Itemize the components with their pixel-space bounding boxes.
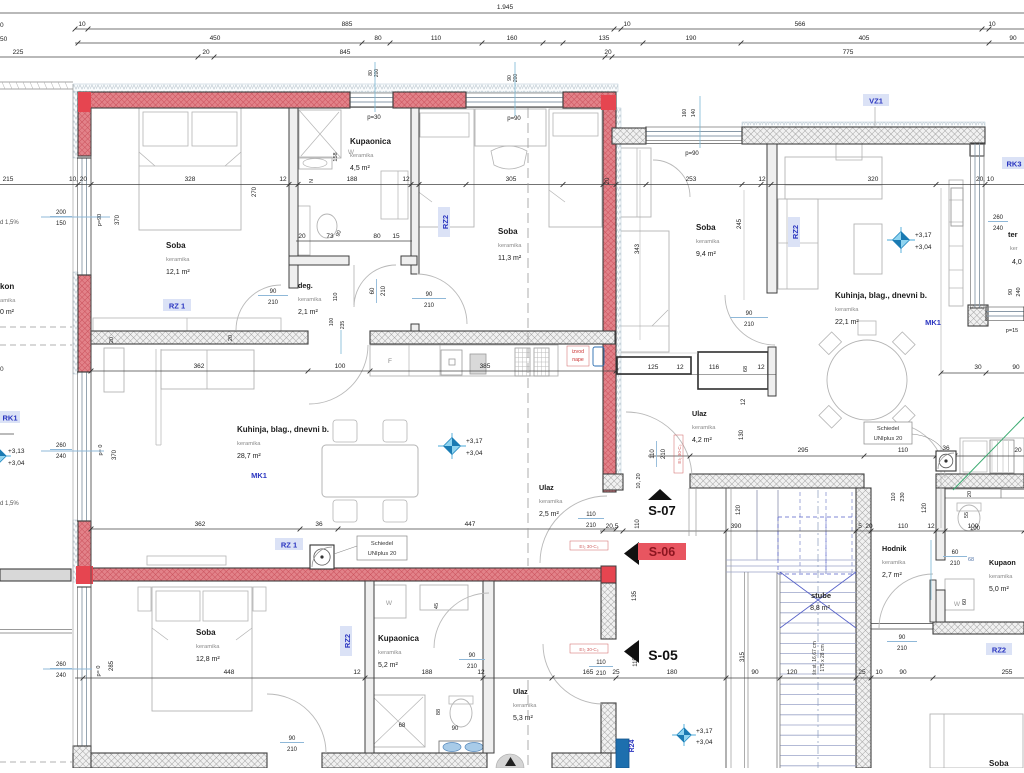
- svg-text:N: N: [309, 179, 315, 183]
- svg-text:210: 210: [467, 664, 478, 670]
- svg-text:245: 245: [737, 218, 743, 229]
- svg-text:68: 68: [399, 723, 406, 729]
- chimney symbol: [310, 545, 334, 569]
- svg-text:405: 405: [859, 35, 870, 42]
- svg-text:125: 125: [648, 364, 659, 371]
- svg-text:keramika: keramika: [989, 574, 1013, 580]
- red west wall pier lower: [78, 521, 91, 568]
- svg-text:188: 188: [422, 669, 433, 676]
- svg-text:keramika: keramika: [350, 153, 374, 159]
- wardrobe niche wall 1: [617, 357, 691, 374]
- svg-text:200: 200: [513, 74, 519, 83]
- doors: [236, 160, 945, 753]
- svg-text:F: F: [388, 358, 392, 365]
- svg-text:20: 20: [865, 523, 873, 530]
- svg-text:90: 90: [1012, 364, 1020, 371]
- svg-text:188: 188: [347, 176, 358, 183]
- svg-text:90: 90: [746, 311, 753, 317]
- svg-text:Soba: Soba: [696, 223, 716, 232]
- svg-text:10: 10: [623, 21, 631, 28]
- svg-text:320: 320: [868, 176, 879, 183]
- insulation strip top exterior wall: [73, 84, 618, 92]
- svg-text:100: 100: [329, 318, 335, 327]
- svg-text:447: 447: [465, 521, 476, 528]
- svg-text:izvod: izvod: [572, 349, 584, 355]
- svg-text:deg.: deg.: [298, 281, 313, 290]
- svg-text:20, 10: 20, 10: [976, 176, 994, 183]
- svg-text:12: 12: [402, 176, 410, 183]
- svg-text:+3,17: +3,17: [466, 438, 483, 445]
- svg-text:šir.st. 16,67 cm: šir.st. 16,67 cm: [812, 641, 818, 675]
- svg-text:190: 190: [686, 35, 697, 42]
- level marker compass: [438, 445, 466, 447]
- label RZ 1: [163, 299, 191, 311]
- level marker compass: [887, 239, 915, 241]
- svg-text:d 1,5%: d 1,5%: [0, 501, 19, 507]
- svg-text:260: 260: [56, 662, 67, 668]
- svg-text:160: 160: [682, 109, 688, 118]
- svg-text:10: 10: [78, 21, 86, 28]
- svg-text:5,3 m²: 5,3 m²: [513, 715, 534, 722]
- shaft niche wall 2: [698, 352, 768, 389]
- svg-text:keramika: keramika: [498, 243, 522, 249]
- svg-text:RK3: RK3: [1006, 160, 1021, 169]
- red exterior wall top segment 3: [563, 92, 616, 108]
- svg-text:Schiedel: Schiedel: [877, 426, 899, 432]
- svg-text:keramika: keramika: [378, 650, 402, 656]
- svg-text:p=30: p=30: [367, 115, 381, 121]
- svg-text:235: 235: [340, 321, 346, 330]
- svg-text:Ulaz: Ulaz: [692, 409, 707, 418]
- svg-text:210: 210: [268, 300, 279, 306]
- svg-text:68: 68: [743, 366, 749, 372]
- svg-text:20: 20: [967, 491, 973, 497]
- svg-text:110: 110: [898, 523, 909, 530]
- svg-text:keramika: keramika: [513, 703, 537, 709]
- svg-text:+3,04: +3,04: [466, 450, 483, 457]
- svg-text:+3,17: +3,17: [696, 728, 713, 735]
- svg-text:4,5 m²: 4,5 m²: [350, 165, 371, 172]
- svg-text:keramika: keramika: [882, 560, 906, 566]
- svg-text:448: 448: [224, 669, 235, 676]
- svg-text:15: 15: [392, 233, 400, 240]
- red vertical party wall: [603, 108, 616, 492]
- label RZ2: [438, 207, 450, 237]
- partition wall soba/kupaonica S-05: [365, 581, 374, 753]
- svg-text:90: 90: [289, 736, 296, 742]
- svg-text:keramika: keramika: [298, 297, 322, 303]
- svg-text:175 x 28 cm: 175 x 28 cm: [820, 644, 826, 671]
- svg-text:240: 240: [1016, 287, 1022, 296]
- svg-text:110: 110: [333, 293, 339, 302]
- svg-text:22,1 m²: 22,1 m²: [835, 319, 859, 326]
- svg-text:+3,13: +3,13: [8, 448, 25, 455]
- bottom exterior wall segment 1: [83, 753, 267, 768]
- svg-text:nape: nape: [572, 357, 584, 363]
- svg-text:390: 390: [731, 523, 742, 530]
- svg-text:210: 210: [744, 322, 755, 328]
- svg-text:4,0: 4,0: [1012, 259, 1022, 266]
- furniture layer: [93, 108, 1024, 768]
- svg-text:55: 55: [964, 512, 970, 518]
- partition wall bathroom right: [411, 108, 419, 274]
- partition wall soba 9.4: [767, 144, 777, 293]
- svg-text:amika: amika: [0, 298, 16, 304]
- svg-text:25: 25: [612, 669, 620, 676]
- svg-text:362: 362: [195, 521, 206, 528]
- svg-text:210: 210: [586, 523, 597, 529]
- svg-text:120: 120: [787, 669, 798, 676]
- level marker compass: [672, 734, 696, 736]
- svg-text:8,8 m²: 8,8 m²: [810, 605, 831, 612]
- svg-text:EI₂ 30-C₅: EI₂ 30-C₅: [677, 444, 682, 463]
- svg-text:90: 90: [899, 635, 906, 641]
- bottom exterior wall segment 3: [552, 753, 611, 768]
- svg-text:Kuhinja, blag., dnevni b.: Kuhinja, blag., dnevni b.: [835, 291, 927, 300]
- svg-text:160: 160: [507, 35, 518, 42]
- svg-text:135: 135: [599, 35, 610, 42]
- bottom exterior wall segment 2: [322, 753, 487, 768]
- svg-text:116: 116: [709, 364, 720, 371]
- svg-text:210: 210: [950, 561, 961, 567]
- svg-text:328: 328: [185, 176, 196, 183]
- svg-text:90: 90: [469, 653, 476, 659]
- exterior wall top right: [742, 127, 985, 144]
- svg-text:Kuhinja, blag., dnevni b.: Kuhinja, blag., dnevni b.: [237, 425, 329, 434]
- svg-text:RZ 1: RZ 1: [169, 302, 185, 311]
- svg-text:S-07: S-07: [648, 503, 675, 518]
- svg-text:p=90: p=90: [507, 116, 521, 122]
- svg-text:VZ1: VZ1: [869, 97, 883, 106]
- svg-text:Soba: Soba: [196, 628, 216, 637]
- svg-text:10, 20: 10, 20: [69, 176, 87, 183]
- svg-text:50: 50: [0, 36, 8, 43]
- svg-text:2,7 m²: 2,7 m²: [882, 572, 903, 579]
- svg-text:12: 12: [758, 176, 766, 183]
- svg-text:UNIplus 20: UNIplus 20: [368, 551, 397, 557]
- svg-text:ker: ker: [1010, 246, 1018, 252]
- svg-text:90: 90: [452, 726, 459, 732]
- svg-text:2,1 m²: 2,1 m²: [298, 309, 319, 316]
- svg-text:80: 80: [373, 233, 381, 240]
- svg-text:EI₂ 30-C₅: EI₂ 30-C₅: [579, 544, 598, 549]
- svg-text:2,5 m²: 2,5 m²: [539, 511, 560, 518]
- svg-text:36: 36: [315, 521, 323, 528]
- svg-text:120: 120: [922, 502, 928, 513]
- svg-text:230: 230: [900, 492, 906, 501]
- svg-text:ter: ter: [1008, 230, 1018, 239]
- interior load wall left: [91, 331, 308, 344]
- svg-text:+3,17: +3,17: [915, 232, 932, 239]
- svg-text:Ulaz: Ulaz: [539, 483, 554, 492]
- red horizontal party wall S-06: [85, 568, 616, 581]
- svg-text:68: 68: [968, 557, 974, 563]
- svg-text:225: 225: [13, 49, 24, 56]
- svg-text:110: 110: [898, 447, 909, 454]
- svg-text:Soba: Soba: [498, 227, 518, 236]
- level marker compass: [0, 455, 11, 457]
- svg-text:90: 90: [751, 669, 759, 676]
- red exterior wall top segment 2: [393, 92, 466, 108]
- interior load wall right: [370, 331, 615, 344]
- svg-text:9,4 m²: 9,4 m²: [696, 251, 717, 258]
- label RZ2: [986, 643, 1012, 655]
- svg-text:10: 10: [988, 21, 996, 28]
- svg-text:12: 12: [279, 176, 287, 183]
- svg-text:p=90: p=90: [685, 151, 699, 157]
- svg-text:885: 885: [342, 21, 353, 28]
- svg-text:60: 60: [952, 550, 959, 556]
- svg-text:88: 88: [436, 709, 442, 715]
- svg-text:210: 210: [381, 285, 387, 296]
- svg-text:180: 180: [667, 669, 678, 676]
- corridor north wall: [690, 474, 864, 488]
- svg-text:295: 295: [798, 447, 809, 454]
- svg-text:Soba: Soba: [166, 241, 186, 250]
- svg-text:p= 0: p= 0: [96, 666, 102, 677]
- svg-text:12: 12: [477, 669, 485, 676]
- svg-text:60: 60: [370, 287, 376, 294]
- svg-text:RZ 1: RZ 1: [281, 541, 297, 550]
- svg-text:Kupaon: Kupaon: [989, 558, 1016, 567]
- red west wall pier upper: [78, 275, 91, 372]
- svg-text:20: 20: [1014, 447, 1022, 454]
- svg-text:Schiedel: Schiedel: [371, 541, 393, 547]
- svg-text:keramika: keramika: [835, 307, 859, 313]
- svg-text:90: 90: [1009, 35, 1017, 42]
- svg-text:stube: stube: [811, 591, 831, 600]
- svg-text:165: 165: [583, 669, 594, 676]
- svg-text:140: 140: [691, 109, 697, 118]
- svg-text:10, 20: 10, 20: [636, 473, 642, 488]
- svg-text:90: 90: [899, 669, 907, 676]
- svg-text:370: 370: [115, 214, 121, 225]
- svg-text:135: 135: [632, 590, 638, 601]
- svg-text:305: 305: [506, 176, 517, 183]
- svg-text:keramika: keramika: [166, 257, 190, 263]
- label RK3: [1002, 157, 1024, 169]
- svg-text:240: 240: [56, 673, 67, 679]
- svg-text:+3,04: +3,04: [8, 460, 25, 467]
- svg-text:158: 158: [333, 152, 339, 161]
- svg-text:240: 240: [993, 226, 1004, 232]
- svg-text:370: 370: [112, 449, 118, 460]
- svg-text:12: 12: [927, 523, 935, 530]
- svg-text:+3,04: +3,04: [915, 244, 932, 251]
- svg-text:RK1: RK1: [2, 414, 17, 423]
- svg-text:240: 240: [56, 454, 67, 460]
- svg-text:28,7 m²: 28,7 m²: [237, 453, 261, 460]
- svg-text:12,8 m²: 12,8 m²: [196, 656, 220, 663]
- svg-text:80: 80: [374, 35, 382, 42]
- svg-text:315: 315: [740, 651, 746, 662]
- svg-text:4,2 m²: 4,2 m²: [692, 437, 713, 444]
- svg-text:60: 60: [962, 599, 968, 605]
- svg-text:775: 775: [843, 49, 854, 56]
- svg-text:260: 260: [56, 443, 67, 449]
- svg-text:25: 25: [858, 669, 866, 676]
- svg-text:120: 120: [736, 504, 742, 515]
- svg-text:keramika: keramika: [237, 441, 261, 447]
- svg-text:S-05: S-05: [648, 647, 678, 663]
- svg-text:S-06: S-06: [649, 545, 675, 559]
- svg-text:36: 36: [942, 445, 950, 452]
- svg-text:215: 215: [3, 176, 14, 183]
- svg-text:keramika: keramika: [692, 425, 716, 431]
- svg-text:MK1: MK1: [251, 471, 267, 480]
- svg-text:W: W: [386, 600, 393, 607]
- svg-text:W: W: [954, 601, 961, 608]
- svg-text:12: 12: [676, 364, 684, 371]
- windows: [77, 93, 1024, 747]
- svg-text:0: 0: [0, 22, 4, 29]
- svg-text:p= 0: p= 0: [98, 445, 104, 456]
- svg-text:5,0 m²: 5,0 m²: [989, 586, 1010, 593]
- svg-text:210: 210: [596, 671, 607, 677]
- svg-text:73: 73: [326, 233, 334, 240]
- svg-text:p=15: p=15: [1006, 328, 1018, 334]
- svg-text:R24: R24: [629, 739, 636, 752]
- svg-text:RZ2: RZ2: [791, 225, 800, 239]
- svg-text:90: 90: [426, 292, 433, 298]
- svg-text:110: 110: [635, 519, 641, 529]
- svg-text:20: 20: [298, 233, 306, 240]
- svg-text:30: 30: [974, 364, 982, 371]
- svg-text:45: 45: [434, 603, 440, 609]
- svg-text:keramika: keramika: [539, 499, 563, 505]
- svg-text:385: 385: [480, 363, 491, 370]
- svg-text:20: 20: [605, 177, 611, 184]
- label RZ 1: [275, 538, 303, 550]
- partition wall kupaonica/ulaz S-05: [483, 581, 494, 753]
- bathroom block north wall: [936, 474, 1024, 488]
- red exterior wall top segment 1: [78, 92, 350, 108]
- svg-text:10: 10: [875, 669, 883, 676]
- svg-text:20: 20: [228, 335, 234, 341]
- svg-text:Kupaonica: Kupaonica: [378, 634, 419, 643]
- balcony divider wall: [0, 569, 71, 581]
- svg-text:Hodnik: Hodnik: [882, 544, 906, 553]
- svg-text:RZ2: RZ2: [441, 215, 450, 229]
- svg-text:20: 20: [109, 337, 115, 343]
- svg-text:200: 200: [56, 210, 67, 216]
- svg-text:285: 285: [109, 660, 115, 671]
- svg-text:450: 450: [210, 35, 221, 42]
- svg-text:210: 210: [661, 448, 667, 459]
- svg-text:Ulaz: Ulaz: [513, 687, 528, 696]
- svg-text:110: 110: [431, 35, 442, 42]
- svg-text:keramika: keramika: [196, 644, 220, 650]
- svg-text:110: 110: [596, 660, 606, 666]
- svg-text:p=90: p=90: [97, 214, 103, 226]
- svg-text:110: 110: [650, 449, 656, 459]
- svg-text:keramika: keramika: [696, 239, 720, 245]
- svg-text:130: 130: [739, 429, 745, 440]
- svg-text:255: 255: [1002, 669, 1013, 676]
- svg-text:12,1 m²: 12,1 m²: [166, 269, 190, 276]
- label RZ2: [340, 626, 352, 656]
- svg-text:210: 210: [287, 747, 298, 753]
- svg-text:EI₂ 30-C₅: EI₂ 30-C₅: [579, 647, 598, 652]
- svg-text:MK1: MK1: [925, 318, 941, 327]
- label RK1: [0, 411, 20, 423]
- svg-text:90: 90: [270, 289, 277, 295]
- svg-text:270: 270: [252, 186, 258, 197]
- svg-text:150: 150: [56, 221, 67, 227]
- svg-text:12: 12: [757, 364, 765, 371]
- svg-text:100: 100: [335, 363, 346, 370]
- svg-text:110: 110: [586, 512, 596, 518]
- svg-text:12: 12: [353, 669, 361, 676]
- stairwell east wall: [856, 488, 871, 768]
- svg-text:RZ2: RZ2: [343, 634, 352, 648]
- svg-text:Kupaonica: Kupaonica: [350, 137, 391, 146]
- svg-text:20,5: 20,5: [606, 523, 619, 530]
- svg-text:100: 100: [970, 526, 981, 532]
- svg-text:0 m²: 0 m²: [0, 309, 15, 316]
- svg-text:d 1,5%: d 1,5%: [0, 220, 19, 226]
- svg-text:210: 210: [897, 646, 908, 652]
- svg-text:11,3 m²: 11,3 m²: [498, 255, 522, 262]
- svg-text:0: 0: [0, 366, 4, 373]
- svg-text:5,2 m²: 5,2 m²: [378, 662, 399, 669]
- label VZ1: [863, 94, 889, 106]
- svg-text:+3,04: +3,04: [696, 739, 713, 746]
- svg-text:RZ2: RZ2: [992, 646, 1006, 655]
- svg-text:343: 343: [635, 243, 641, 254]
- svg-text:1.945: 1.945: [497, 4, 514, 11]
- svg-text:Soba: Soba: [989, 759, 1009, 768]
- svg-text:20: 20: [202, 49, 210, 56]
- svg-text:kon: kon: [0, 282, 14, 291]
- partition wall bathroom left: [289, 108, 298, 288]
- svg-text:5: 5: [858, 523, 862, 530]
- svg-text:UNIplus 20: UNIplus 20: [874, 436, 903, 442]
- svg-text:845: 845: [340, 49, 351, 56]
- svg-text:260: 260: [993, 215, 1004, 221]
- svg-text:210: 210: [424, 303, 435, 309]
- svg-text:90: 90: [1008, 289, 1014, 295]
- chimney symbol: [936, 451, 956, 471]
- svg-text:20: 20: [604, 49, 612, 56]
- svg-text:362: 362: [194, 363, 205, 370]
- stairs: [726, 488, 856, 773]
- label RZ2: [788, 217, 800, 247]
- svg-text:566: 566: [795, 21, 806, 28]
- svg-text:253: 253: [686, 176, 697, 183]
- svg-text:110: 110: [891, 493, 897, 502]
- svg-text:12: 12: [741, 398, 747, 405]
